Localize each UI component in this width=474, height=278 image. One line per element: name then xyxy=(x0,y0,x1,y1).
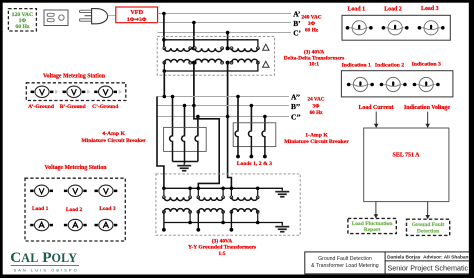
indication lamp I3 xyxy=(413,77,440,91)
junction primary bus 6 xyxy=(256,187,260,191)
node load 3 feed xyxy=(263,155,267,159)
wire stub secondary terminal 2 to bus xyxy=(222,212,224,223)
transformer T3 primary xyxy=(230,47,259,52)
junction primary bus 1 xyxy=(162,187,166,191)
wire tap A' to T1 primary xyxy=(163,14,165,47)
junction A'' from delta xyxy=(163,95,167,99)
svg-text:Report: Report xyxy=(364,227,381,233)
junction primary bus 4 xyxy=(221,187,225,191)
svg-text:Y-Y Grounded Transformers: Y-Y Grounded Transformers xyxy=(188,245,256,251)
label 1-Amp K xyxy=(284,132,349,145)
node secondary output 2 xyxy=(196,228,200,232)
svg-text:C’’: C’’ xyxy=(291,112,301,121)
wire tap C' to T2/T3 primary junction xyxy=(227,33,229,48)
svg-text:Miniature Circuit Breaker: Miniature Circuit Breaker xyxy=(81,138,146,144)
wire stub to primary terminal 4 xyxy=(222,188,224,196)
svg-text:10:1: 10:1 xyxy=(309,61,319,67)
svg-text:SEL 751 A: SEL 751 A xyxy=(392,153,420,159)
node secondary output 3 xyxy=(230,228,234,232)
lamp L1 xyxy=(346,21,373,35)
svg-text:C’: C’ xyxy=(293,28,301,37)
wire B feed elbow to Y-Y T5 primary xyxy=(194,106,219,189)
junction secondary bus A xyxy=(163,69,167,73)
wire secondary output 3 xyxy=(230,212,232,230)
wire B'' to 4-Amp breaker xyxy=(184,106,186,136)
wire secondary output 1 xyxy=(163,212,165,230)
transformer T1 primary xyxy=(163,47,192,51)
svg-text:3Φ: 3Φ xyxy=(313,103,321,109)
junction C'' from delta xyxy=(226,115,230,119)
output box load fluctuation report xyxy=(348,218,396,233)
junction A'' load tap xyxy=(236,95,240,99)
svg-text:Load 1: Load 1 xyxy=(32,206,49,212)
svg-text:Load 2: Load 2 xyxy=(66,207,83,213)
svg-text:Load Current: Load Current xyxy=(358,105,393,111)
junction primary bus 3 xyxy=(197,187,201,191)
svg-text:Voltage Metering Station: Voltage Metering Station xyxy=(43,74,106,80)
svg-text:Ground Fault Detection: Ground Fault Detection xyxy=(318,256,372,262)
svg-text:4-Amp K: 4-Amp K xyxy=(102,131,125,137)
svg-text:B’: B’ xyxy=(293,19,300,28)
junction primary bus 5 xyxy=(230,187,234,191)
junction delta top bus xyxy=(162,38,166,42)
wire tap B' to T1/T2 primary junction xyxy=(193,23,195,48)
junction A' tap xyxy=(162,12,166,16)
voltmeter V4 xyxy=(30,185,53,196)
svg-text:Indication 2: Indication 2 xyxy=(375,62,404,68)
node load 2 feed xyxy=(250,155,254,159)
voltmeter V5 xyxy=(64,185,87,196)
Y-Y transformer bank enclosure xyxy=(156,174,300,235)
node secondary output 1 xyxy=(162,228,166,232)
ground Y-Y primary neutral xyxy=(275,191,289,193)
voltmeter V2 xyxy=(63,86,91,97)
svg-text:CAL POLY: CAL POLY xyxy=(10,249,77,266)
svg-text:24 VAC: 24 VAC xyxy=(308,97,325,103)
Cal Poly wordmark xyxy=(10,249,79,272)
junction B'' from delta xyxy=(192,104,196,108)
wire stub to primary terminal 1 xyxy=(163,188,165,196)
label load names xyxy=(32,206,116,213)
transformer T6 secondary xyxy=(230,209,259,214)
wire indication voltage into SEL xyxy=(427,112,429,125)
label Y-Y bank xyxy=(188,237,256,256)
svg-text:A’-Ground: A’-Ground xyxy=(28,104,54,110)
circuit breaker CB1 4-Amp K xyxy=(164,127,207,163)
transformer T2 secondary xyxy=(193,59,223,64)
svg-text:Load 1: Load 1 xyxy=(348,7,366,13)
svg-text:Voltage Metering Station: Voltage Metering Station xyxy=(45,165,108,171)
svg-text:SAN LUIS OBISPO: SAN LUIS OBISPO xyxy=(14,267,79,272)
lamp L2 xyxy=(382,21,409,35)
wire C feed elbow to Y-Y T6 primary xyxy=(228,117,232,189)
label delta-delta bank xyxy=(284,48,344,67)
wire plug to VFD xyxy=(108,14,116,16)
svg-text:1-Amp K: 1-Amp K xyxy=(305,132,328,138)
junction A'' breaker tap xyxy=(171,95,175,99)
transformer T1 secondary xyxy=(163,60,192,64)
wire secondary tap C down xyxy=(227,63,229,117)
ammeter A1 xyxy=(30,219,53,230)
svg-text:& Transformer Load Metering: & Transformer Load Metering xyxy=(311,263,379,269)
transformer T5 primary xyxy=(197,196,225,201)
junction secondary C xyxy=(226,61,230,65)
wire delta primary closing bus xyxy=(164,40,258,47)
voltage metering station 1 enclosure xyxy=(26,83,126,101)
voltmeter V3 xyxy=(94,86,122,97)
wire secondary tap A to bus A'' xyxy=(163,71,165,97)
transformer T4 secondary xyxy=(163,209,192,214)
junction B'' load tap xyxy=(250,104,254,108)
transformer T3 secondary xyxy=(230,59,259,64)
plug xyxy=(80,9,108,24)
wire secondary output 2 xyxy=(197,212,199,230)
svg-text:Load 2: Load 2 xyxy=(384,7,402,13)
svg-text:Ground Fault: Ground Fault xyxy=(412,222,445,228)
svg-text:A’’: A’’ xyxy=(291,92,300,101)
label 24 VAC 3ph 60 Hz xyxy=(308,97,325,116)
wire secondary tap B down xyxy=(193,63,195,106)
junction C'' breaker tap xyxy=(196,115,200,119)
label loads 1-3 xyxy=(348,6,439,13)
svg-text:60 Hz: 60 Hz xyxy=(305,27,319,33)
svg-text:B’’: B’’ xyxy=(291,102,300,111)
junction C'' load tap xyxy=(263,115,267,119)
svg-text:1:5: 1:5 xyxy=(218,251,226,257)
delta-delta transformer bank enclosure xyxy=(157,37,274,76)
wire bus C' xyxy=(158,32,291,34)
junction B' tap xyxy=(192,21,196,25)
circuit breaker CB2 1-Amp K xyxy=(233,123,276,157)
ammeter A2 xyxy=(64,219,87,230)
wire Y-Y primary neutral bus xyxy=(164,188,282,190)
label 4-Amp K xyxy=(81,131,146,144)
junction secondary B xyxy=(192,61,196,65)
junction primary C xyxy=(226,46,230,50)
wire A'' left end down to Y-Y T4 primary xyxy=(157,97,164,189)
label indications 1-3 xyxy=(342,62,441,69)
voltage metering station 2 enclosure xyxy=(25,178,125,241)
title block xyxy=(305,252,471,274)
svg-text:Indication 3: Indication 3 xyxy=(412,62,441,68)
svg-text:Load Fluctuation: Load Fluctuation xyxy=(352,221,393,227)
wire stub to primary terminal 2 xyxy=(189,188,191,196)
wire Y-Y secondary neutral bus xyxy=(164,223,282,226)
wire SEL to load fluctuation report xyxy=(375,202,377,215)
ammeter A3 xyxy=(95,219,118,230)
relay U2 SEL 751 A xyxy=(364,128,449,202)
indication lamp I1 xyxy=(347,77,374,91)
wire stub to primary terminal 3 xyxy=(197,188,199,196)
svg-text:(3) 40VA: (3) 40VA xyxy=(212,237,233,244)
lamp L3 xyxy=(418,21,445,35)
wire C'' to 1-Amp breaker xyxy=(264,117,266,131)
wire stub secondary terminal 3 to bus xyxy=(257,212,259,223)
node load 1 feed xyxy=(236,155,240,159)
delta symbol primary xyxy=(263,44,269,50)
indication lamp panel xyxy=(341,71,453,97)
svg-text:B’-Ground: B’-Ground xyxy=(60,104,86,110)
voltmeter V1 xyxy=(31,86,59,97)
transformer T5 secondary xyxy=(197,209,225,214)
transformer T2 primary xyxy=(193,47,223,52)
wire A'' to 1-Amp breaker xyxy=(237,97,239,131)
ground below CB1 xyxy=(183,164,185,165)
svg-text:(3) 40VA: (3) 40VA xyxy=(304,48,325,55)
svg-text:Loads 1, 2 & 3: Loads 1, 2 & 3 xyxy=(237,161,272,167)
wire bus B'' xyxy=(157,105,289,107)
wire stub secondary terminal 1 to bus xyxy=(189,212,191,223)
svg-text:3Φ: 3Φ xyxy=(308,21,316,27)
svg-text:1Φ➞3Φ: 1Φ➞3Φ xyxy=(127,17,147,23)
wire breaker CB1 outputs join xyxy=(173,161,198,163)
junction secondary bus 1 xyxy=(188,221,192,225)
svg-text:Indication 1: Indication 1 xyxy=(342,62,371,68)
wire load current into SEL xyxy=(375,112,377,125)
voltmeter V6 xyxy=(95,185,118,196)
junction primary B xyxy=(192,46,196,50)
wire B'' to 1-Amp breaker xyxy=(250,106,252,131)
svg-text:60 Hz: 60 Hz xyxy=(15,24,30,30)
svg-text:Miniature Circuit Breaker: Miniature Circuit Breaker xyxy=(284,139,349,145)
wire bus C'' xyxy=(157,116,289,118)
svg-text:60 Hz: 60 Hz xyxy=(310,110,324,116)
svg-text:Indication Voltage: Indication Voltage xyxy=(404,105,450,111)
junction C' tap xyxy=(226,31,230,35)
wire A'' to 4-Amp breaker xyxy=(172,97,174,136)
junction primary bus 2 xyxy=(188,187,192,191)
ground Y-Y secondary neutral xyxy=(275,226,289,228)
wire bus A' xyxy=(158,13,291,15)
wire C'' to 4-Amp breaker xyxy=(197,117,199,136)
svg-text:Daniela Borjas Advisor: Ali S: Daniela Borjas Advisor: Ali Shaban xyxy=(387,255,468,261)
svg-text:Senior Project Schematic: Senior Project Schematic xyxy=(387,264,468,273)
label meter grounds xyxy=(28,104,118,110)
svg-text:240 VAC: 240 VAC xyxy=(301,14,321,20)
svg-text:A’: A’ xyxy=(293,9,300,18)
wire delta secondary closing bus xyxy=(164,63,258,71)
svg-text:C’-Ground: C’-Ground xyxy=(92,104,118,110)
transformer T6 primary xyxy=(230,196,259,201)
junction B'' breaker tap xyxy=(183,104,187,108)
svg-text:Detection: Detection xyxy=(417,228,439,234)
delta symbol secondary xyxy=(263,61,269,67)
svg-text:VFD: VFD xyxy=(130,9,143,16)
indication lamp I2 xyxy=(380,77,407,91)
wire bus B' xyxy=(158,22,291,24)
load lamp panel xyxy=(342,15,450,40)
transformer T4 primary xyxy=(163,196,192,201)
wall outlet xyxy=(44,10,68,26)
wire stub to primary terminal 5 xyxy=(230,188,232,196)
junction secondary bus 3 xyxy=(256,221,260,225)
wire SEL to ground fault detection xyxy=(427,202,429,216)
source 120 VAC box xyxy=(8,9,36,31)
wire stub to primary terminal 6 xyxy=(257,188,259,196)
output box ground fault detection xyxy=(407,219,450,235)
wire bus A'' xyxy=(157,96,289,98)
svg-text:Load 3: Load 3 xyxy=(99,206,116,212)
junction secondary bus 2 xyxy=(221,221,225,225)
VFD U1 xyxy=(116,7,158,23)
svg-text:Load 3: Load 3 xyxy=(421,6,439,12)
label 240 VAC 3ph 60 Hz xyxy=(301,14,321,33)
